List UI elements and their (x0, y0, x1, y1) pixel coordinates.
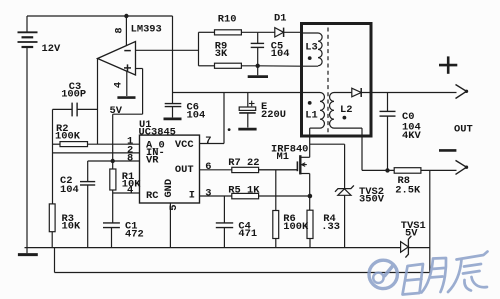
svg-text:8: 8 (127, 153, 133, 165)
svg-text:R7 22: R7 22 (228, 157, 259, 169)
svg-text:5V: 5V (405, 227, 418, 239)
svg-text:104: 104 (60, 184, 79, 196)
svg-text:100P: 100P (61, 89, 86, 101)
svg-text:UC3845: UC3845 (139, 126, 176, 138)
svg-text:471: 471 (238, 228, 257, 240)
svg-text:LM393: LM393 (131, 24, 162, 36)
svg-text:GND: GND (163, 179, 175, 198)
svg-text:R10: R10 (218, 13, 237, 25)
svg-text:7: 7 (205, 135, 211, 147)
svg-text:350V: 350V (359, 194, 385, 206)
svg-text:10K: 10K (62, 221, 81, 233)
svg-text:8: 8 (113, 27, 125, 33)
svg-text:3K: 3K (215, 48, 228, 60)
svg-text:RC: RC (146, 190, 158, 202)
svg-text:OUT: OUT (454, 124, 473, 136)
svg-text:4KV: 4KV (402, 130, 421, 142)
svg-text:2.5K: 2.5K (395, 184, 421, 196)
svg-text:472: 472 (125, 229, 144, 241)
svg-text:M1: M1 (277, 151, 289, 163)
svg-text:L1: L1 (305, 109, 317, 121)
svg-text:OUT: OUT (175, 164, 194, 176)
svg-text:6: 6 (205, 161, 211, 173)
svg-text:12V: 12V (42, 43, 61, 55)
svg-text:104: 104 (271, 48, 290, 60)
svg-text:I: I (189, 189, 195, 201)
svg-text:100K: 100K (55, 131, 81, 143)
svg-text:3: 3 (205, 188, 211, 200)
svg-text:5: 5 (168, 204, 180, 210)
svg-text:5V: 5V (110, 105, 123, 117)
svg-text:R5 1K: R5 1K (228, 184, 260, 196)
svg-text:L3: L3 (305, 41, 317, 53)
svg-text:220U: 220U (261, 109, 286, 121)
svg-text:100K: 100K (283, 221, 309, 233)
svg-text:10K: 10K (122, 178, 141, 190)
svg-text:4: 4 (113, 82, 125, 88)
svg-text:D1: D1 (274, 12, 286, 24)
svg-text:L2: L2 (340, 104, 352, 116)
svg-text:.33: .33 (321, 221, 340, 233)
svg-text:VR: VR (146, 154, 159, 166)
svg-text:VCC: VCC (175, 139, 194, 151)
svg-text:104: 104 (187, 109, 206, 121)
